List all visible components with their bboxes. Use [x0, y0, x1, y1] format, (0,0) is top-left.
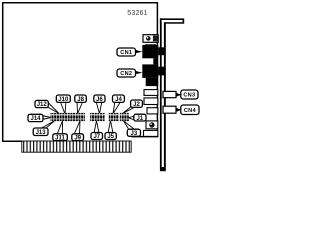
svg-text:J5: J5 — [107, 134, 114, 140]
svg-text:J1: J1 — [137, 116, 144, 122]
svg-text:CN1: CN1 — [120, 50, 132, 56]
svg-text:53261: 53261 — [127, 10, 147, 17]
svg-text:CN2: CN2 — [120, 71, 132, 77]
svg-text:CN4: CN4 — [184, 108, 197, 114]
svg-text:J14: J14 — [30, 116, 41, 122]
svg-text:J12: J12 — [37, 102, 48, 108]
svg-text:J6: J6 — [96, 97, 103, 103]
svg-text:J4: J4 — [115, 97, 122, 103]
svg-text:J9: J9 — [74, 135, 81, 141]
svg-text:J8: J8 — [77, 97, 84, 103]
svg-text:J7: J7 — [93, 134, 100, 140]
svg-text:J13: J13 — [36, 130, 47, 136]
svg-text:CN3: CN3 — [183, 93, 195, 99]
svg-text:J11: J11 — [55, 135, 65, 141]
svg-text:J10: J10 — [58, 97, 69, 103]
svg-text:J2: J2 — [133, 102, 140, 108]
svg-text:J3: J3 — [131, 131, 138, 137]
